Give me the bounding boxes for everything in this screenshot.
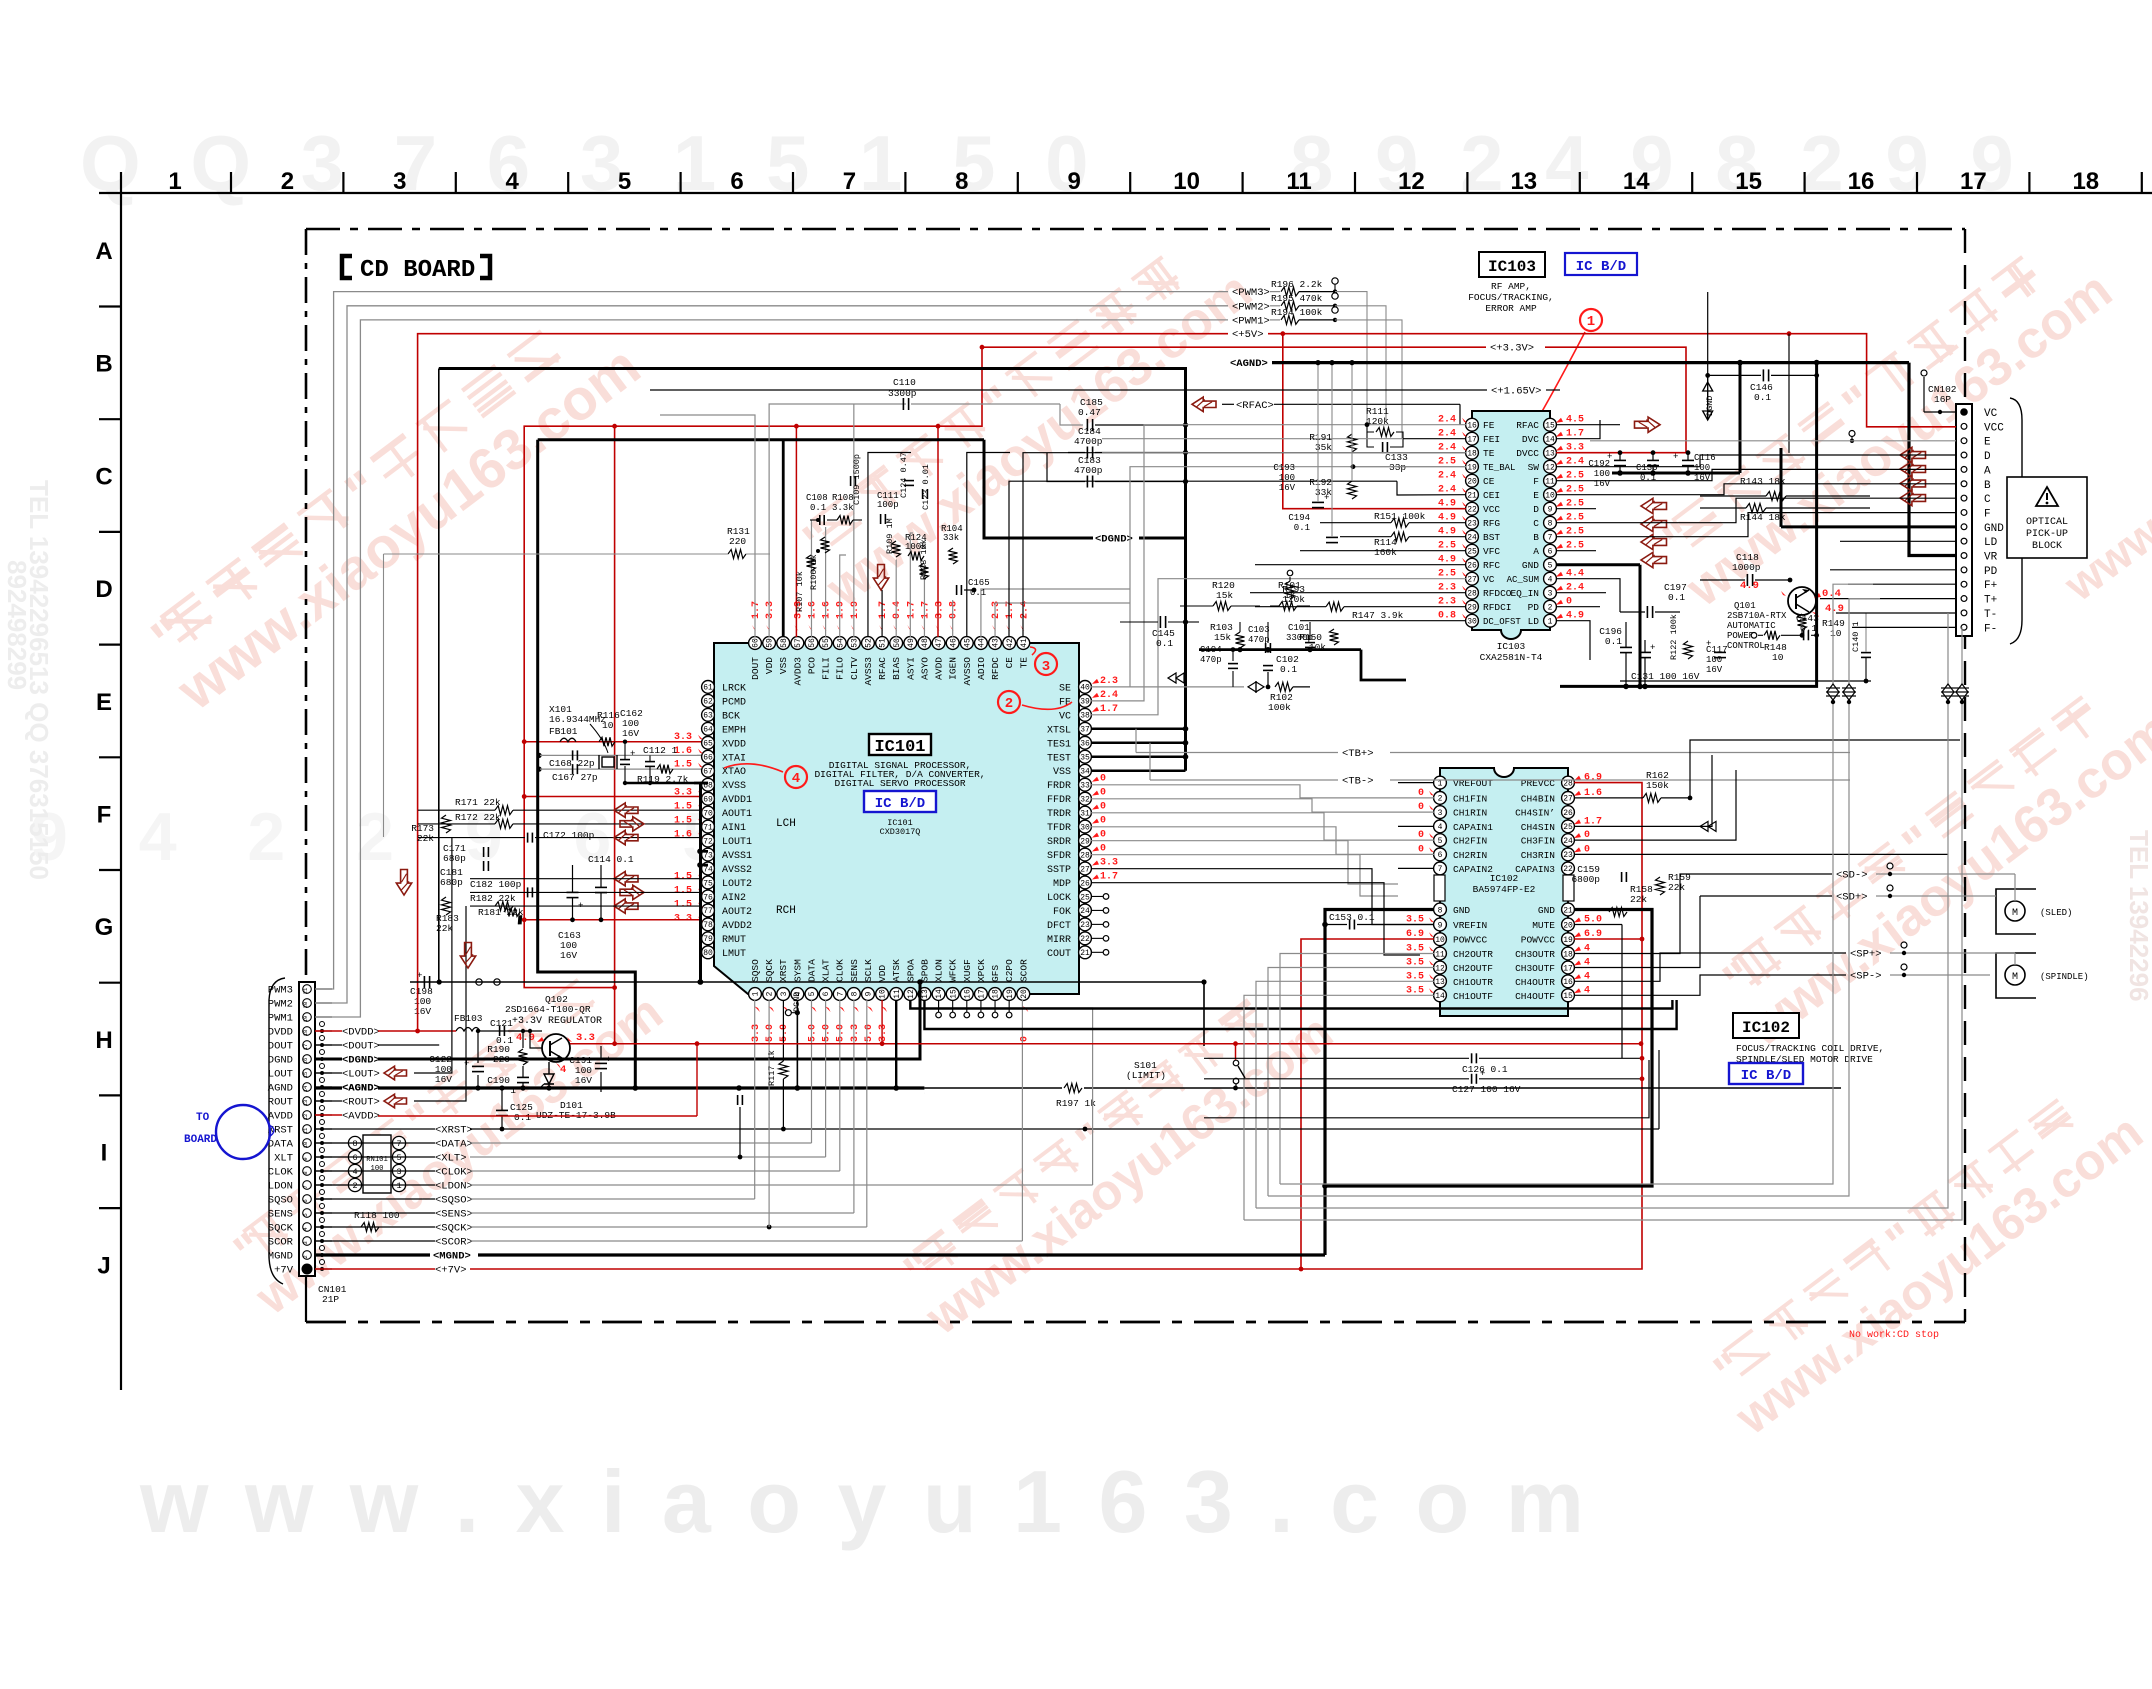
- wire AVSS2 row thick: [700, 864, 708, 867]
- svg-text:LMUT: LMUT: [722, 949, 746, 960]
- svg-text:2: 2: [281, 168, 294, 195]
- svg-text:<TB+>: <TB+>: [1342, 748, 1374, 760]
- svg-text:73: 73: [703, 851, 713, 860]
- svg-text:DVDD: DVDD: [268, 1027, 293, 1039]
- watermark pink right-top: [1644, 219, 2123, 618]
- svg-text:16: 16: [1848, 168, 1875, 195]
- svg-text:9: 9: [1548, 506, 1553, 515]
- svg-text:5.0: 5.0: [822, 1024, 833, 1042]
- svg-text:RFDC: RFDC: [990, 657, 1001, 680]
- svg-text:FOK: FOK: [1053, 907, 1071, 918]
- wire MUTE row: [1574, 924, 1622, 926]
- svg-text:LOCK: LOCK: [1047, 893, 1071, 904]
- svg-text:220: 220: [729, 536, 746, 547]
- signal arrows to pickup: [1900, 447, 1926, 462]
- svg-text:SPOA: SPOA: [905, 959, 916, 982]
- svg-text:67: 67: [703, 768, 713, 777]
- svg-text:6: 6: [1548, 548, 1553, 557]
- svg-text:20: 20: [302, 1002, 309, 1009]
- svg-text:C108: C108: [806, 493, 828, 503]
- signal arrow LOUT: [384, 1066, 407, 1080]
- svg-text:2: 2: [766, 991, 775, 996]
- svg-text:892498299: 892498299: [2, 560, 32, 690]
- motor SPINDLE bracket: [1996, 953, 2036, 998]
- ferrite bead FB103: [456, 1028, 480, 1032]
- svg-text:CH3RIN: CH3RIN: [1521, 850, 1555, 861]
- svg-text:0.1: 0.1: [1294, 523, 1310, 533]
- motor SPINDLE symbol: [2005, 965, 2025, 985]
- svg-text:680p: 680p: [440, 877, 463, 888]
- svg-text:2.5: 2.5: [1438, 541, 1456, 552]
- svg-text:17: 17: [1467, 436, 1477, 445]
- svg-text:41: 41: [1020, 638, 1029, 648]
- ruler column ticks: [230, 172, 232, 193]
- svg-text:20: 20: [1563, 921, 1573, 930]
- wire RFC row: [1255, 564, 1466, 566]
- watermark pink bottom-left: [215, 945, 673, 1326]
- svg-text:POWVCC: POWVCC: [1453, 935, 1488, 946]
- svg-text:<SQSO>: <SQSO>: [435, 1195, 473, 1207]
- svg-text:15: 15: [302, 1072, 309, 1079]
- wire mid horizontal to riser: [1204, 1060, 1649, 1118]
- wire red to S101: [1235, 1044, 1237, 1060]
- wire AGND to CN102 VR: [1909, 363, 1956, 556]
- svg-text:100: 100: [1594, 469, 1610, 479]
- wire IC102 GND pin21 thick: [1325, 910, 1652, 1187]
- svg-text:1.6: 1.6: [822, 601, 833, 619]
- svg-text:10: 10: [879, 989, 888, 999]
- svg-text:XLT: XLT: [274, 1153, 293, 1165]
- svg-text:C112 1: C112 1: [643, 745, 678, 756]
- wire SQCK row: [315, 1226, 435, 1228]
- wire IC101 bottom stubs: [796, 1000, 798, 1088]
- crystal X101: [602, 757, 614, 767]
- svg-text:A: A: [95, 238, 112, 265]
- svg-text:IC B/D: IC B/D: [875, 796, 925, 812]
- svg-text:XTAO: XTAO: [722, 767, 746, 778]
- wire PWM1 bus: [315, 320, 1228, 1017]
- svg-text:+: +: [1650, 643, 1655, 653]
- svg-text:4700p: 4700p: [1074, 465, 1103, 476]
- svg-text:1: 1: [1548, 618, 1553, 627]
- ruler row ticks: [99, 305, 121, 307]
- wire red 3.3V sub-bus: [524, 347, 982, 987]
- svg-text:MIRR: MIRR: [1047, 935, 1071, 946]
- wire DVC pin14: [1556, 420, 1600, 439]
- svg-text:0.1: 0.1: [1754, 392, 1771, 403]
- wire CN102 D A B C F lines: [1596, 455, 1956, 467]
- svg-text:4: 4: [792, 771, 800, 787]
- svg-text:16V: 16V: [414, 1006, 431, 1017]
- svg-text:C: C: [1533, 518, 1539, 529]
- svg-text:RFC: RFC: [1483, 560, 1500, 571]
- svg-text:2.4: 2.4: [1566, 583, 1584, 594]
- svg-text:2SB710A-RTX: 2SB710A-RTX: [1727, 611, 1787, 621]
- svg-text:SENS: SENS: [849, 959, 860, 982]
- capacitor C184 4700p: [1068, 452, 1085, 454]
- wire XTSL TES1 TEST VSS stubs to DGND: [1091, 728, 1186, 731]
- svg-text:TO: TO: [196, 1112, 210, 1124]
- svg-text:1.7: 1.7: [1100, 871, 1118, 882]
- svg-text:5: 5: [1438, 837, 1443, 846]
- svg-text:C121: C121: [490, 1018, 513, 1029]
- svg-text:27: 27: [1080, 865, 1090, 874]
- IC101 left pin column pins 61-80: [702, 681, 715, 694]
- svg-text:R194 100k: R194 100k: [1271, 307, 1323, 318]
- svg-text:CLTV: CLTV: [849, 657, 860, 680]
- svg-text:IC B/D: IC B/D: [1741, 1068, 1791, 1084]
- svg-text:0: 0: [1584, 844, 1590, 855]
- svg-text:C114 0.1: C114 0.1: [588, 854, 634, 865]
- wire AGND drop to caps: [1739, 363, 1742, 473]
- capacitor C108 0.1: [819, 515, 821, 525]
- svg-text:0: 0: [1566, 597, 1572, 608]
- svg-text:37: 37: [1080, 726, 1090, 735]
- svg-text:RFG: RFG: [1483, 518, 1500, 529]
- svg-text:1.9: 1.9: [836, 601, 847, 619]
- svg-text:3.5: 3.5: [1406, 985, 1424, 996]
- svg-text:59: 59: [766, 638, 775, 648]
- svg-text:SCLK: SCLK: [863, 959, 874, 982]
- svg-text:1.7: 1.7: [906, 601, 917, 619]
- svg-text:<ROUT>: <ROUT>: [342, 1097, 380, 1109]
- svg-text:FFDR: FFDR: [1047, 795, 1071, 806]
- wire TE row gray: [1102, 452, 1466, 454]
- svg-text:18: 18: [1467, 450, 1477, 459]
- svg-text:23: 23: [1467, 520, 1477, 529]
- svg-text:LOUT1: LOUT1: [722, 837, 752, 848]
- svg-text:2.5: 2.5: [1438, 457, 1456, 468]
- svg-text:1.7: 1.7: [1100, 704, 1118, 715]
- svg-text:26: 26: [1080, 879, 1090, 888]
- svg-text:AVSSO: AVSSO: [962, 657, 973, 686]
- svg-text:0: 0: [1100, 788, 1106, 799]
- resistor network RN101 body: [363, 1135, 391, 1193]
- wire XTAI line: [697, 754, 701, 756]
- svg-text:AVDD1: AVDD1: [722, 795, 752, 806]
- svg-text:8: 8: [955, 168, 968, 195]
- svg-text:+7V: +7V: [274, 1265, 294, 1277]
- E line test point: [1849, 431, 1855, 437]
- svg-text:LOUT: LOUT: [268, 1069, 293, 1081]
- wire CH4BIN net: [1690, 740, 1960, 798]
- svg-text:CH2OUTR: CH2OUTR: [1453, 949, 1493, 960]
- svg-text:C127 100 16V: C127 100 16V: [1452, 1084, 1521, 1095]
- svg-text:1: 1: [752, 991, 761, 996]
- svg-text:58: 58: [780, 638, 789, 648]
- svg-text:3: 3: [396, 1167, 401, 1177]
- svg-text:680p: 680p: [443, 853, 466, 864]
- svg-text:SQCK: SQCK: [268, 1223, 294, 1235]
- svg-text:SQSO: SQSO: [268, 1195, 293, 1207]
- svg-text:OPTICAL: OPTICAL: [2026, 517, 2068, 528]
- wire CN102 LD line: [1840, 540, 1956, 542]
- svg-text:2.3: 2.3: [1438, 583, 1456, 594]
- svg-text:CLOK: CLOK: [835, 959, 846, 982]
- net tag DGND mid bold: [1093, 529, 1139, 546]
- svg-text:I: I: [101, 1140, 108, 1167]
- svg-text:VC: VC: [1483, 574, 1495, 585]
- wire SE line: [1091, 467, 1466, 687]
- svg-text:<DOUT>: <DOUT>: [342, 1041, 380, 1053]
- optical block warning triangle: [2036, 487, 2058, 506]
- capacitor C163 100 16V: [567, 891, 579, 893]
- svg-text:RFDCI: RFDCI: [1483, 602, 1512, 613]
- svg-text:C109 1500p: C109 1500p: [852, 454, 862, 505]
- wire IC101 right open pins: [1091, 895, 1103, 897]
- wire AGND row CN101: [315, 1086, 342, 1089]
- svg-text:POWER: POWER: [1727, 631, 1755, 641]
- svg-text:1.6: 1.6: [1584, 788, 1602, 799]
- watermark pink center-top: [784, 219, 1263, 618]
- svg-text:5: 5: [808, 991, 817, 996]
- watermark pink right-middle: [1704, 659, 2152, 1058]
- IC101 top pin row pins 60-41: [749, 637, 762, 650]
- svg-text:5: 5: [618, 168, 631, 195]
- wire VDD pin10 red riser: [881, 1000, 883, 1044]
- signal arrow AIN2: [620, 885, 644, 899]
- wire AGND thick bus top: [1272, 361, 1909, 364]
- svg-text:6: 6: [352, 1153, 357, 1163]
- svg-text:ATSK: ATSK: [891, 959, 902, 982]
- svg-text:<RFAC>: <RFAC>: [1236, 400, 1274, 412]
- svg-text:CH1FIN: CH1FIN: [1453, 793, 1487, 804]
- wire DGND jumper drop: [1203, 982, 1205, 1046]
- svg-text:7: 7: [396, 1139, 401, 1149]
- svg-text:10: 10: [1772, 652, 1784, 663]
- svg-text:TEST: TEST: [1047, 753, 1071, 764]
- svg-text:1: 1: [168, 168, 181, 195]
- svg-text:28: 28: [1563, 779, 1573, 788]
- svg-text:12: 12: [907, 989, 916, 999]
- signal arrow AIN1: [620, 817, 644, 831]
- svg-text:1.5: 1.5: [674, 816, 692, 827]
- svg-text:CH3FIN: CH3FIN: [1521, 836, 1555, 847]
- svg-text:R195 470k: R195 470k: [1271, 293, 1323, 304]
- svg-text:C140 1: C140 1: [1851, 621, 1861, 652]
- svg-text:<LOUT>: <LOUT>: [342, 1069, 380, 1081]
- svg-text:No work:CD stop: No work:CD stop: [1849, 1329, 1939, 1341]
- wire CH3OUTR outputs: [1574, 874, 1700, 954]
- svg-text:MDP: MDP: [1053, 879, 1071, 890]
- svg-text:E: E: [1984, 437, 1991, 449]
- wire +3.3V red rail: [614, 426, 616, 1043]
- svg-text:1.7: 1.7: [751, 601, 762, 619]
- svg-text:+: +: [1673, 452, 1678, 462]
- svg-text:22k: 22k: [417, 833, 434, 844]
- svg-text:(SPINDLE): (SPINDLE): [2040, 972, 2089, 982]
- wire DGND left drop: [438, 369, 440, 983]
- svg-text:DVCC: DVCC: [1516, 448, 1539, 459]
- svg-text:AVDD: AVDD: [934, 657, 945, 680]
- svg-text:EQ_IN: EQ_IN: [1510, 588, 1539, 599]
- svg-text:2.4: 2.4: [1438, 471, 1456, 482]
- svg-text:10: 10: [1830, 628, 1842, 639]
- svg-text:7: 7: [1548, 534, 1553, 543]
- resistor R102 100k: [1275, 682, 1293, 691]
- svg-text:SQCK: SQCK: [764, 959, 775, 982]
- svg-text:T-: T-: [1984, 609, 1997, 621]
- wire SENS row: [315, 1212, 435, 1214]
- wire EQ_IN row: [1556, 592, 1606, 594]
- svg-text:C123 0.01: C123 0.01: [921, 464, 931, 510]
- wire Q102 output to IC101 VDD: [570, 1043, 1641, 1045]
- svg-text:2.4: 2.4: [1100, 690, 1118, 701]
- svg-text:RF AMP,: RF AMP,: [1491, 281, 1531, 292]
- IC102 left pin column pins 1-14: [1434, 776, 1447, 789]
- wire RFAC line: [1222, 403, 1234, 405]
- wire IC102 left input rows: [1398, 782, 1434, 784]
- arrow down RFAC level: [873, 565, 888, 591]
- svg-text:160k: 160k: [1374, 547, 1397, 558]
- svg-text:C182 100p: C182 100p: [470, 879, 522, 890]
- svg-text:CE: CE: [1004, 657, 1015, 669]
- svg-text:Q101: Q101: [1734, 601, 1756, 611]
- capacitor C109 1500p: [850, 476, 852, 486]
- svg-text:10: 10: [1545, 492, 1555, 501]
- svg-text:VSS: VSS: [778, 657, 789, 674]
- svg-text:52: 52: [865, 638, 874, 648]
- svg-text:23: 23: [1563, 851, 1573, 860]
- svg-text:0.1: 0.1: [1156, 638, 1173, 649]
- svg-text:COUT: COUT: [1047, 949, 1071, 960]
- svg-text:R108: R108: [832, 493, 854, 503]
- IC IC102 motor driver body: [1440, 768, 1568, 1016]
- TO BOARD circle: [216, 1105, 270, 1159]
- svg-text:<+5V>: <+5V>: [1232, 329, 1264, 341]
- svg-text:<SP+>: <SP+>: [1850, 949, 1882, 961]
- svg-text:SPOB: SPOB: [919, 959, 930, 982]
- svg-text:31: 31: [1080, 809, 1090, 818]
- ruler horizontal line: [99, 192, 2152, 194]
- svg-text:10: 10: [1435, 936, 1445, 945]
- wire FEI row: [1102, 438, 1403, 440]
- svg-text:21: 21: [1467, 492, 1477, 501]
- svg-text:D: D: [95, 576, 112, 603]
- svg-text:29: 29: [1467, 604, 1477, 613]
- svg-text:14: 14: [1545, 436, 1555, 445]
- wire PWM3 bus: [315, 292, 1228, 989]
- svg-text:2.4: 2.4: [1566, 457, 1584, 468]
- svg-text:FOCUS/TRACKING,: FOCUS/TRACKING,: [1468, 292, 1554, 303]
- svg-text:470p: 470p: [1200, 655, 1222, 665]
- dash-dot board border top: [306, 228, 1965, 231]
- svg-text:39: 39: [1080, 698, 1090, 707]
- wire red AVDD1 row: [524, 796, 701, 798]
- svg-text:VDD: VDD: [877, 965, 888, 982]
- wire FRDR..SFDR to IC102: [1091, 785, 1434, 798]
- svg-text:3.3: 3.3: [1100, 858, 1118, 869]
- svg-text:<MGND>: <MGND>: [433, 1251, 471, 1263]
- svg-text:ROUT: ROUT: [268, 1097, 293, 1109]
- svg-text:CH1OUTF: CH1OUTF: [1453, 991, 1493, 1002]
- signal arrow AOUT2: [614, 899, 638, 913]
- wire PWM2 drop: [1335, 306, 1386, 420]
- svg-text:21P: 21P: [322, 1294, 339, 1305]
- svg-text:<PWM2>: <PWM2>: [1232, 301, 1270, 313]
- svg-text:TEL 13942296: TEL 13942296: [2124, 830, 2152, 1002]
- svg-text:VR: VR: [1984, 552, 1998, 564]
- svg-text:4: 4: [506, 168, 520, 195]
- svg-text:IC103: IC103: [1488, 258, 1536, 276]
- red marker circle 4: [785, 766, 807, 788]
- svg-text:+3.3V REGULATOR: +3.3V REGULATOR: [512, 1016, 602, 1027]
- svg-text:(SLED): (SLED): [2040, 908, 2072, 918]
- resistor R118 100: [361, 1223, 379, 1232]
- svg-text:3: 3: [393, 168, 406, 195]
- svg-text:7: 7: [302, 1185, 309, 1188]
- svg-text:11: 11: [1435, 950, 1445, 959]
- svg-text:100: 100: [1279, 473, 1295, 483]
- svg-text:10: 10: [602, 720, 614, 731]
- wire VC IC103 row: [1280, 578, 1466, 580]
- wire CN102 GND thick: [1781, 525, 1956, 528]
- svg-text:11: 11: [1286, 168, 1311, 195]
- svg-text:VDD: VDD: [764, 657, 775, 674]
- svg-text:CH4SIN’: CH4SIN’: [1515, 808, 1555, 819]
- svg-text:+: +: [1706, 639, 1711, 649]
- svg-text:<AGND>: <AGND>: [1230, 358, 1268, 370]
- svg-text:4.9: 4.9: [1438, 555, 1456, 566]
- svg-text:F: F: [1984, 508, 1991, 520]
- svg-text:4.5: 4.5: [1566, 415, 1584, 426]
- wire red XVDD row: [524, 741, 701, 743]
- diode pair on SE row: [1248, 682, 1264, 692]
- svg-text:2.4: 2.4: [1438, 415, 1456, 426]
- wire +5V to CN102 VCC: [1268, 334, 1956, 427]
- svg-text:12: 12: [1545, 464, 1555, 473]
- svg-text:4: 4: [1584, 985, 1590, 996]
- svg-text:VC: VC: [1059, 711, 1071, 722]
- svg-text:F: F: [1533, 476, 1539, 487]
- diode pair CH4SIN: [1700, 821, 1716, 831]
- svg-text:3.5: 3.5: [1406, 944, 1424, 955]
- svg-text:3.5: 3.5: [1406, 971, 1424, 982]
- svg-text:2.3: 2.3: [991, 601, 1002, 619]
- wire SPOA thick route: [910, 1000, 1672, 1009]
- wire red drop to IC101 pin57: [795, 426, 797, 630]
- svg-text:<+7V>: <+7V>: [435, 1265, 467, 1277]
- wire +5V drop to IC103 VCC pin22: [1283, 334, 1466, 509]
- wire CN102 E line: [1590, 440, 1956, 442]
- wire coil drive routes to CN102: [1280, 954, 1434, 1185]
- svg-text:DFCT: DFCT: [1047, 921, 1071, 932]
- svg-text:29: 29: [1080, 837, 1090, 846]
- svg-text:35: 35: [1080, 754, 1090, 763]
- svg-text:LOUT2: LOUT2: [722, 879, 752, 890]
- svg-text:DGND: DGND: [268, 1055, 293, 1067]
- svg-text:5.0: 5.0: [1584, 915, 1602, 926]
- svg-text:XLAT: XLAT: [821, 959, 832, 982]
- svg-text:78: 78: [703, 921, 713, 930]
- svg-text:9: 9: [1438, 921, 1443, 930]
- signal arrow RFAC: [1192, 397, 1216, 411]
- svg-text:2.3: 2.3: [1438, 597, 1456, 608]
- svg-text:0.1: 0.1: [1605, 636, 1622, 647]
- svg-text:POWVCC: POWVCC: [1521, 935, 1556, 946]
- svg-text:BIAS: BIAS: [891, 657, 902, 680]
- svg-text:SRDR: SRDR: [1047, 837, 1071, 848]
- svg-text:32: 32: [1080, 795, 1090, 804]
- svg-text:CONTROL: CONTROL: [1727, 641, 1765, 651]
- svg-text:76: 76: [703, 893, 713, 902]
- wire RFDCO row: [1250, 592, 1466, 594]
- svg-text:+: +: [578, 901, 583, 911]
- wire SW F E D C B A rows short: [1556, 466, 1596, 468]
- svg-text:FRDR: FRDR: [1047, 781, 1071, 792]
- capacitor C190: [517, 1076, 529, 1078]
- wire PWM1 drop to FEI network: [1335, 320, 1402, 439]
